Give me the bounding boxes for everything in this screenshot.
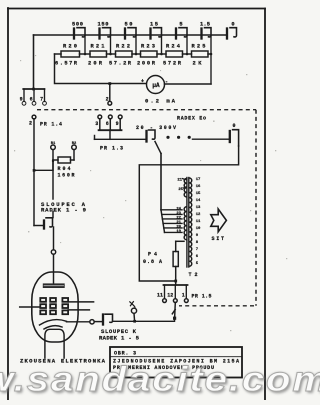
terminal R1 xyxy=(51,145,56,150)
wire: bus down to PR1.4 xyxy=(33,35,35,89)
svg-text:572R: 572R xyxy=(163,61,182,67)
wire: fan branch 5 xyxy=(164,227,182,229)
fuse P4 xyxy=(173,241,184,285)
switch contact voltage selector xyxy=(147,130,156,142)
svg-text:23: 23 xyxy=(176,212,181,216)
svg-text:R21: R21 xyxy=(91,44,105,50)
svg-text:15: 15 xyxy=(150,22,158,28)
transformer T2 primary top bumps xyxy=(184,179,186,197)
tube envelope xyxy=(32,272,78,342)
switch PR1.5 wiper xyxy=(172,303,175,321)
wire: fan branch 4 xyxy=(163,222,182,224)
wire: fan branch 3 xyxy=(162,218,182,220)
wire: tap bundle vertical xyxy=(160,154,162,210)
svg-text:2: 2 xyxy=(106,96,109,102)
wire: junction 1.5 down to meter right lead xyxy=(210,36,212,84)
svg-text:9: 9 xyxy=(116,121,119,127)
svg-text:11: 11 xyxy=(196,220,201,224)
wire: fan branch 6 xyxy=(165,231,183,233)
transformer right tap numbers xyxy=(196,178,201,266)
svg-text:20 - 300V: 20 - 300V xyxy=(136,125,176,131)
node: meter lead / PR1.3 junction xyxy=(108,82,111,85)
wire: fan staircase xyxy=(161,210,165,233)
svg-text:20R: 20R xyxy=(88,61,103,67)
svg-text:6: 6 xyxy=(30,97,33,103)
switch PR1.4 wiper xyxy=(32,115,36,170)
wire: range bus xyxy=(34,34,227,36)
range contact 15 xyxy=(151,28,162,39)
svg-text:P4: P4 xyxy=(148,252,157,258)
svg-text:R2: R2 xyxy=(72,142,77,146)
wire: junction 500 to R20/R21 xyxy=(84,36,86,54)
svg-text:R23: R23 xyxy=(141,44,155,50)
svg-text:SIT: SIT xyxy=(212,236,225,242)
transformer T2 secondary bumps xyxy=(189,178,191,266)
svg-text:12: 12 xyxy=(196,213,201,217)
switch PR1.5 xyxy=(163,285,189,303)
switch contact SLOUPEC K xyxy=(94,314,112,324)
wire: 0V return loop around transformer xyxy=(139,146,238,281)
svg-text:0.8 A: 0.8 A xyxy=(143,259,162,265)
svg-text:0: 0 xyxy=(231,22,234,28)
svg-text:7: 7 xyxy=(40,97,43,103)
terminal K xyxy=(131,308,136,313)
svg-text:14: 14 xyxy=(196,199,201,203)
svg-text:57.2R: 57.2R xyxy=(109,61,132,67)
wire: chain left end down to meter left lead xyxy=(55,54,148,84)
wire: grid left lead xyxy=(20,306,41,308)
resistor R22 xyxy=(116,51,141,57)
title block separator xyxy=(110,356,242,358)
svg-text:2: 2 xyxy=(29,121,32,127)
tube grid squares xyxy=(40,298,68,314)
svg-text:3: 3 xyxy=(95,121,98,127)
arrow SIT xyxy=(211,209,227,232)
wire: cathode to terminal xyxy=(67,321,90,323)
terminal R2 xyxy=(72,145,77,150)
tube stem arch xyxy=(45,329,64,358)
range contact 50 xyxy=(125,28,136,39)
svg-text:T2: T2 xyxy=(189,272,198,278)
wire: selector feed xyxy=(95,136,147,140)
svg-text:200R: 200R xyxy=(137,61,156,67)
svg-text:10: 10 xyxy=(196,227,201,231)
svg-text:PR 1.4: PR 1.4 xyxy=(40,122,62,128)
svg-text:6: 6 xyxy=(196,255,199,259)
svg-text:11: 11 xyxy=(157,293,163,299)
svg-text:12: 12 xyxy=(167,293,173,299)
wire: R04 node down to SLOUPEC A contact xyxy=(52,162,54,218)
svg-text:15: 15 xyxy=(196,192,201,196)
svg-text:R22: R22 xyxy=(116,44,130,50)
svg-text:R1: R1 xyxy=(51,142,56,146)
transformer T2 core xyxy=(187,178,189,268)
wire: fan branch 2 xyxy=(162,213,182,215)
switch contact SLOUPEC A xyxy=(44,218,53,229)
meter M1 xyxy=(147,76,165,94)
svg-text:0.2 mA: 0.2 mA xyxy=(145,97,176,104)
svg-text:160R: 160R xyxy=(58,172,75,178)
switch PR1.3 contacts xyxy=(98,115,122,130)
svg-text:1.5: 1.5 xyxy=(200,22,210,28)
wire: PR1.3 bar down to selector wire xyxy=(109,130,111,139)
svg-text:PR 1.5: PR 1.5 xyxy=(192,293,212,299)
svg-text:2K: 2K xyxy=(193,61,203,67)
wire: terminal into tube xyxy=(53,254,55,283)
resistor R25 xyxy=(192,51,212,57)
transformer left tap numbers xyxy=(176,207,181,234)
svg-text:50: 50 xyxy=(125,22,133,28)
wire: R04 node down-left to main vertical xyxy=(34,160,53,170)
wire: meter right lead xyxy=(165,83,212,85)
svg-text:25: 25 xyxy=(178,188,183,192)
wire: selector common xyxy=(193,138,230,140)
node: chain junctions xyxy=(52,53,213,163)
svg-text:+: + xyxy=(141,79,144,85)
range contact 5 xyxy=(176,28,187,39)
svg-text:8: 8 xyxy=(196,241,199,245)
switch PR1.4 bar xyxy=(22,89,46,105)
svg-text:500: 500 xyxy=(72,22,83,28)
svg-text:6: 6 xyxy=(106,121,109,127)
svg-text:16: 16 xyxy=(196,185,201,189)
svg-text:R20: R20 xyxy=(63,44,77,50)
resistor R24 xyxy=(166,51,192,57)
resistor R20 xyxy=(55,51,91,57)
svg-text:PR 1.3: PR 1.3 xyxy=(100,145,123,151)
resistor R04 160R xyxy=(53,150,74,163)
svg-text:R04: R04 xyxy=(58,166,71,172)
svg-text:5: 5 xyxy=(179,22,182,28)
tube anode plate xyxy=(43,283,65,288)
svg-text:R24: R24 xyxy=(166,44,181,50)
wire: fan branch 1 xyxy=(161,209,182,211)
resistor R23 xyxy=(141,51,167,57)
svg-text:9: 9 xyxy=(196,234,199,238)
svg-text:17: 17 xyxy=(196,178,201,182)
svg-text:R25: R25 xyxy=(192,44,206,50)
svg-text:9: 9 xyxy=(20,97,23,103)
svg-text:RADEK 1 - 5: RADEK 1 - 5 xyxy=(99,334,140,341)
gang dashed linkage xyxy=(37,110,256,306)
range contact 0 xyxy=(227,28,237,39)
svg-text:22: 22 xyxy=(176,216,181,220)
svg-text:7: 7 xyxy=(196,248,199,252)
svg-text:RADEK 1 - 9: RADEK 1 - 9 xyxy=(41,206,87,213)
transformer T2 primary lower bumps xyxy=(184,207,186,240)
range contact 1.5 xyxy=(202,28,212,39)
wire: contact to PR1.5 wiper node xyxy=(114,320,175,322)
svg-text:µA: µA xyxy=(152,82,160,89)
svg-text:6.57R: 6.57R xyxy=(55,61,78,67)
svg-text:0: 0 xyxy=(232,123,235,129)
svg-text:24: 24 xyxy=(176,207,181,211)
tube cathode arcs xyxy=(40,320,67,329)
svg-text:21: 21 xyxy=(176,221,181,225)
svg-text:OBR. 3: OBR. 3 xyxy=(114,351,136,357)
wire: selector to tap bundle xyxy=(155,142,161,154)
wire: junction 5 to R24/R25 xyxy=(186,36,188,54)
wire: junction 150 to R21/R22 xyxy=(110,36,112,54)
svg-text:20: 20 xyxy=(176,225,181,229)
terminal anode top xyxy=(51,250,55,254)
switch contact 0V xyxy=(230,130,239,146)
wire: grid right stub 1 xyxy=(68,301,94,303)
svg-text:19: 19 xyxy=(176,230,181,234)
range contact 150 xyxy=(100,28,111,39)
node dots selector positions xyxy=(166,136,190,139)
resistor R21 xyxy=(90,51,116,57)
switch PR1.3 wiper xyxy=(108,84,112,105)
svg-text:13: 13 xyxy=(196,206,201,210)
svg-text:1: 1 xyxy=(182,293,185,299)
svg-text:150: 150 xyxy=(98,22,109,28)
wire: junction 15 to R23/R24 xyxy=(161,36,163,54)
wire: contact down to anode terminal xyxy=(53,227,55,250)
svg-text:5: 5 xyxy=(196,262,199,266)
title block box xyxy=(110,347,242,378)
svg-text:RADEX Eo: RADEX Eo xyxy=(177,115,206,121)
terminal cathode xyxy=(90,320,94,324)
wire: main vertical to contact xyxy=(34,225,44,227)
watermark www.sandacite.com xyxy=(0,362,320,398)
range contact 500 xyxy=(74,28,85,39)
wire: grid right stub 2 xyxy=(68,309,89,311)
wire: junction 50 to R22/R23 xyxy=(135,36,137,54)
